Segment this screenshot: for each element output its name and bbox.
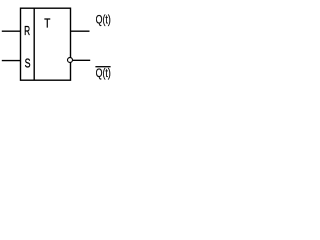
svg-text:R: R [24,23,30,38]
overline for Q-bar [95,66,110,68]
wire Q-bar output [73,59,90,61]
svg-text:T: T [44,15,50,30]
svg-text:S: S [25,55,31,70]
wire R input [2,30,21,32]
flip-flop body outline [21,8,71,80]
svg-text:Q(t): Q(t) [96,12,111,26]
inversion bubble [68,58,73,63]
wire S input [2,60,21,62]
divider between input strip and main section [33,8,35,80]
svg-text:Q(t): Q(t) [96,66,111,80]
wire Q output [71,30,90,32]
